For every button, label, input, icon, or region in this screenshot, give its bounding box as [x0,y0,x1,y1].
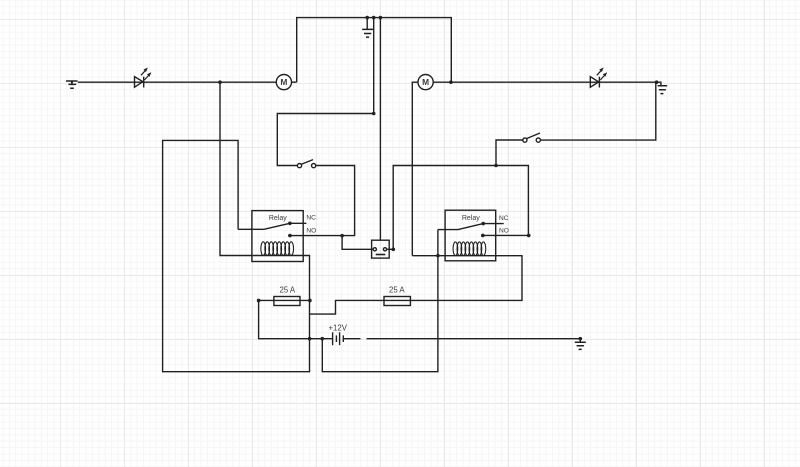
svg-text:M: M [280,77,287,87]
svg-text:25 A: 25 A [389,285,405,294]
svg-text:Relay: Relay [269,215,287,222]
svg-text:NC: NC [499,215,509,222]
svg-text:+12V: +12V [328,324,347,333]
svg-text:25 A: 25 A [279,285,295,294]
svg-text:NO: NO [306,227,316,234]
svg-text:Relay: Relay [462,215,480,222]
svg-text:M: M [422,77,429,87]
svg-text:NC: NC [306,215,316,222]
svg-text:NO: NO [499,228,509,235]
